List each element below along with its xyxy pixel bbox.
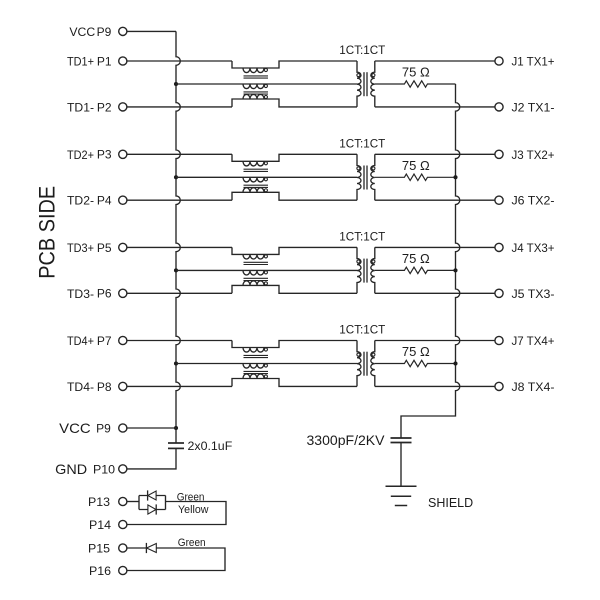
choke T3 core 2 (244, 278, 269, 280)
wire TX2+ to jack (375, 153, 495, 155)
wire termination bus to shield cap (401, 84, 460, 438)
capacitor C2 3300pF/2KV (391, 438, 412, 443)
pin TD4- P8 (67, 380, 127, 394)
jack pin J6 (495, 194, 555, 208)
resistor R1 (375, 81, 456, 87)
svg-text:TD4-: TD4- (67, 380, 94, 394)
pin TD2+ P3 (67, 148, 127, 162)
svg-text:1CT:1CT: 1CT:1CT (339, 43, 385, 57)
junction on VCC bus at tap y=177.3 (174, 175, 178, 179)
wire TX1- to jack (375, 106, 495, 108)
svg-text:P2: P2 (97, 100, 112, 114)
jack pin J8 (495, 380, 555, 394)
svg-text:TD2+: TD2+ (67, 148, 94, 162)
svg-text:TD3-: TD3- (67, 287, 94, 301)
svg-text:P9: P9 (97, 25, 112, 39)
choke T2 center winding / wire tap to transformer (176, 177, 357, 182)
jack pin J7 (495, 334, 555, 348)
svg-text:Green: Green (178, 537, 206, 549)
resistor R2 (375, 174, 456, 180)
wire TX3+ to jack (375, 246, 495, 248)
svg-text:TD3+: TD3+ (67, 241, 94, 255)
choke T4 center winding / wire tap to transformer (176, 364, 357, 369)
LED pair frame (parallel branches) (139, 496, 166, 510)
pin VCC P9 (top) (69, 25, 127, 39)
wire VCC bus (vertical) (176, 31, 180, 443)
wire TX2- to jack (375, 199, 495, 201)
transformer TX4 core (364, 352, 367, 376)
wire TD2+ to choke (127, 153, 232, 155)
choke T4 bottom winding (232, 374, 357, 387)
svg-text:1CT:1CT: 1CT:1CT (339, 323, 385, 337)
svg-text:1CT:1CT: 1CT:1CT (339, 229, 385, 243)
svg-text:TD1-: TD1- (67, 100, 94, 114)
wire TX3- to jack (375, 292, 495, 294)
pin VCC P9 (bottom) (59, 420, 127, 436)
wire TD4- to choke (127, 385, 232, 387)
junction on termination bus y=363.5 (453, 361, 457, 365)
transformer TX3 secondary winding (371, 247, 375, 293)
transformer TX2 secondary winding (371, 154, 375, 200)
wire LED pair to P14 (127, 502, 226, 525)
svg-text:P13: P13 (88, 495, 110, 509)
ground symbol SHIELD (386, 486, 417, 505)
svg-text:SHIELD: SHIELD (428, 496, 473, 510)
svg-text:75 Ω: 75 Ω (402, 344, 430, 359)
choke T3 center winding / wire tap to transformer (176, 270, 357, 275)
pin P13 (88, 495, 127, 509)
choke T4 top winding (232, 341, 357, 353)
wire bus capacitor to GND (127, 448, 176, 469)
wire VCC P9 to bus (127, 30, 176, 32)
pin TD4+ P7 (67, 334, 127, 348)
junction VCC P9 bottom (174, 426, 178, 430)
svg-text:P6: P6 (97, 287, 112, 301)
svg-text:J2 TX1-: J2 TX1- (512, 100, 555, 114)
svg-text:TD1+: TD1+ (67, 55, 94, 69)
svg-text:TD4+: TD4+ (67, 334, 94, 348)
svg-text:J1 TX1+: J1 TX1+ (512, 55, 555, 69)
wire VCC P9 bottom to bus (127, 427, 176, 429)
jack pin J3 (495, 148, 555, 162)
svg-text:J6 TX2-: J6 TX2- (512, 194, 555, 208)
pin TD1+ P1 (67, 54, 127, 68)
LED D3 Green (cathode left) (146, 543, 156, 553)
wire TD3- to choke (127, 292, 232, 294)
svg-text:PCB SIDE: PCB SIDE (35, 186, 60, 279)
pin TD3- P6 (67, 287, 127, 301)
svg-text:P8: P8 (97, 380, 112, 394)
pin P14 (89, 518, 127, 532)
svg-text:VCC: VCC (69, 25, 95, 39)
svg-text:P3: P3 (97, 148, 112, 162)
svg-text:2x0.1uF: 2x0.1uF (188, 439, 233, 453)
wire P13 to LED pair (127, 501, 139, 503)
wire TD4+ to choke (127, 340, 232, 342)
svg-text:P5: P5 (97, 241, 112, 255)
svg-text:J5 TX3-: J5 TX3- (512, 287, 555, 301)
wire TD1+ to choke (127, 60, 232, 62)
svg-text:TD2-: TD2- (67, 194, 94, 208)
wire P15 to LED (127, 547, 146, 549)
transformer TX1 primary winding (357, 61, 361, 107)
transformer TX3 core (364, 259, 367, 283)
svg-text:75 Ω: 75 Ω (402, 65, 430, 80)
svg-text:P1: P1 (97, 54, 112, 68)
wire TD1- to choke (127, 106, 232, 108)
jack pin J2 (495, 100, 555, 114)
choke T3 top winding (232, 247, 357, 259)
wire TD3+ to choke (127, 246, 232, 248)
wire TX4+ to jack (375, 340, 495, 342)
pin TD2- P4 (67, 194, 127, 208)
junction on termination bus y=177.3 (453, 175, 457, 179)
transformer TX4 secondary winding (371, 341, 375, 387)
pin TD3+ P5 (67, 241, 127, 255)
svg-text:VCC: VCC (59, 420, 90, 436)
jack pin J1 (495, 55, 555, 69)
capacitor C1 2x0.1uF (168, 443, 184, 448)
choke T2 core 2 (244, 185, 269, 187)
svg-text:1CT:1CT: 1CT:1CT (339, 136, 385, 150)
svg-text:J3 TX2+: J3 TX2+ (512, 148, 555, 162)
svg-text:75 Ω: 75 Ω (402, 158, 430, 173)
LED D2 Yellow (bottom, cathode right) (148, 504, 156, 514)
transformer TX3 primary winding (357, 247, 361, 293)
choke T1 top winding (232, 61, 357, 73)
choke T1 core 2 (244, 92, 269, 94)
pin P16 (89, 564, 127, 578)
svg-text:J8 TX4-: J8 TX4- (512, 380, 555, 394)
pin P15 (88, 541, 127, 555)
choke T3 core (244, 262, 269, 264)
svg-text:3300pF/2KV: 3300pF/2KV (307, 433, 385, 448)
transformer TX2 primary winding (357, 154, 361, 200)
transformer TX1 secondary winding (371, 61, 375, 107)
choke T1 core (244, 76, 269, 78)
choke T4 core 2 (244, 371, 269, 373)
choke T1 bottom winding (232, 94, 357, 107)
svg-text:J7 TX4+: J7 TX4+ (512, 334, 555, 348)
junction on termination bus y=270.4 (453, 268, 457, 272)
choke T4 core (244, 355, 269, 357)
svg-text:Yellow: Yellow (178, 504, 209, 516)
junction on VCC bus at tap y=84.0 (174, 82, 178, 86)
pin GND P10 (55, 461, 127, 477)
wire LED to P16 (127, 548, 225, 571)
svg-text:P9: P9 (96, 421, 111, 435)
resistor R3 (375, 267, 456, 273)
svg-text:P4: P4 (97, 194, 112, 208)
choke T2 top winding (232, 154, 357, 166)
jack pin J5 (495, 287, 555, 301)
svg-text:P7: P7 (97, 334, 112, 348)
choke T3 bottom winding (232, 281, 357, 294)
svg-text:GND: GND (55, 461, 87, 477)
svg-text:P10: P10 (93, 462, 115, 476)
choke T2 core (244, 169, 269, 171)
svg-text:P14: P14 (89, 518, 111, 532)
wire TX4- to jack (375, 385, 495, 387)
wire cap to shield ground (400, 443, 402, 486)
transformer TX1 core (364, 72, 367, 96)
choke T2 bottom winding (232, 188, 357, 200)
resistor R4 (375, 360, 456, 366)
transformer TX4 primary winding (357, 341, 361, 387)
jack pin J4 (495, 241, 555, 255)
wire TX1+ to jack (375, 60, 495, 62)
pin TD1- P2 (67, 100, 127, 114)
svg-text:P16: P16 (89, 564, 111, 578)
LED D1 Green (top, cathode left) (148, 490, 157, 500)
svg-text:J4 TX3+: J4 TX3+ (512, 241, 555, 255)
svg-text:P15: P15 (88, 541, 110, 555)
choke T1 center winding / wire tap to transformer (176, 84, 357, 89)
svg-text:75 Ω: 75 Ω (402, 251, 430, 266)
wire TD2- to choke (127, 199, 232, 201)
junction on VCC bus at tap y=363.5 (174, 361, 178, 365)
transformer TX2 core (364, 166, 367, 190)
junction on VCC bus at tap y=270.4 (174, 268, 178, 272)
